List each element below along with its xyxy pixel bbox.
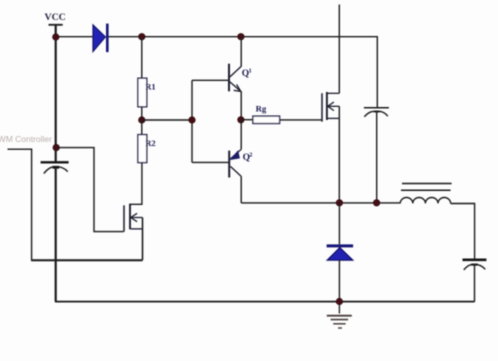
wire gate feed from node	[56, 148, 123, 232]
transistor Q1 (NPN)	[229, 64, 241, 92]
capacitor C2 arc	[364, 111, 388, 117]
capacitor C3 arc	[464, 264, 486, 270]
transistor Q2 (PNP)	[229, 149, 241, 177]
wire switch node to D2 cathode	[338, 203, 340, 245]
capacitor C2 polarity tick	[374, 111, 380, 113]
svg-text:R2: R2	[145, 138, 155, 148]
wire top rail right (D1 cathode to bootstrap corner)	[109, 37, 378, 108]
resistor R2	[138, 135, 147, 163]
wire M1 drain from top	[338, 5, 340, 94]
wire Q1 base	[192, 79, 229, 81]
wire Q3 source down to return wire	[142, 218, 144, 261]
wire R1 bottom to mid node	[141, 107, 143, 120]
wire Q2 collector down to switch rail	[240, 176, 242, 203]
wire Q2 base	[192, 161, 229, 163]
junction dot switch node / M1 source	[336, 200, 342, 206]
wire Q2 emitter up to driver node	[240, 120, 242, 150]
wire top rail left (VCC to D1 anode)	[56, 36, 93, 38]
junction dot VCC node	[53, 34, 59, 40]
junction dot ground node	[336, 298, 342, 304]
svg-text:1: 1	[249, 69, 252, 75]
diode D1	[93, 24, 107, 52]
wire Q1 collector up to rail	[240, 37, 242, 67]
wire mid node to base column	[142, 119, 192, 121]
capacitor C2 (bootstrap) plate	[364, 107, 389, 109]
wire mid node to R2 top	[141, 120, 143, 135]
wire base column vertical	[191, 80, 193, 162]
wire R2 bottom to Q3 drain	[131, 163, 142, 205]
inductor L1 core lines	[401, 184, 452, 191]
diode D2 (freewheeling)	[327, 244, 354, 260]
wire Q1 emitter down to driver node	[240, 91, 242, 120]
wire ground rail (bottom)	[55, 301, 475, 303]
capacitor C1 polarity tick	[53, 166, 60, 169]
svg-text:R1: R1	[145, 81, 155, 91]
capacitor C3 (output) plate	[463, 258, 487, 261]
wire C3 bottom to ground rail	[474, 265, 476, 301]
junction dot rail/Q1 collector	[238, 34, 244, 40]
resistor Rg	[253, 116, 280, 123]
wire Rg to M1 gate	[280, 119, 322, 121]
junction dot gate-feed node	[53, 144, 59, 150]
junction dot base column	[189, 117, 195, 123]
wire C1 bottom to ground rail	[55, 168, 57, 302]
svg-text:VCC: VCC	[45, 12, 66, 23]
junction dot R1/R2 mid node	[139, 117, 145, 123]
wire switch node rail	[241, 202, 400, 204]
wire C2 bottom to switch node	[376, 112, 378, 203]
capacitor C3 polarity tick	[471, 264, 478, 266]
MOSFET M1 (high side)	[322, 92, 339, 122]
svg-text:2: 2	[249, 153, 252, 159]
power VCC terminal bar	[49, 24, 63, 26]
junction dot rail/R1	[139, 34, 145, 40]
wire node to Rg	[241, 119, 253, 121]
capacitor C1 arc	[44, 167, 68, 174]
svg-text:PWM Controller: PWM Controller	[0, 134, 52, 144]
MOSFET Q3 (small, left)	[124, 204, 143, 232]
inductor L1 winding	[400, 197, 450, 203]
capacitor C1 (VCC bypass) plate	[41, 161, 69, 163]
wire D2 anode to ground rail	[338, 260, 340, 301]
resistor R1	[138, 78, 147, 107]
junction dot switch node / C2	[373, 200, 379, 206]
ground symbol	[327, 305, 352, 329]
wire source return (thick bottom-left)	[31, 259, 143, 261]
svg-text:Rg: Rg	[256, 103, 267, 113]
wire PWM input L-shape	[8, 149, 32, 260]
wire L1 to output corner	[451, 204, 475, 260]
wire VCC vertical drop	[55, 25, 57, 162]
wire M1 source down to switch node	[338, 106, 340, 203]
wire rail to R1 top	[141, 37, 143, 78]
junction dot driver output node	[238, 117, 244, 123]
